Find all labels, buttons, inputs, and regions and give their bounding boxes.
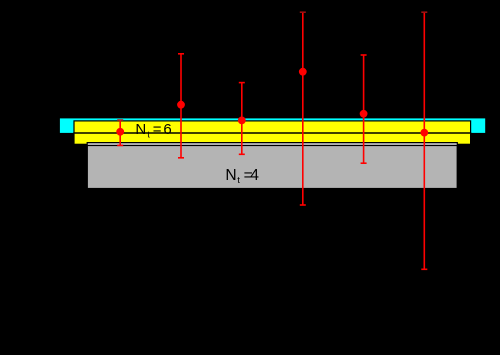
silver center bar Nt=4 — [87, 143, 457, 146]
svg-text:t: t — [237, 175, 240, 186]
svg-text:t: t — [147, 129, 150, 139]
svg-text:4: 4 — [250, 167, 259, 184]
data point 1 — [116, 128, 124, 136]
data point 5 — [360, 110, 368, 118]
svg-text:=: = — [153, 121, 162, 138]
gray band Nt=4 — [87, 145, 457, 188]
data point 6 error bar — [421, 12, 427, 269]
data point 3 error bar — [239, 83, 245, 155]
label Nt=6 — [135, 121, 171, 139]
data point 6 — [420, 129, 428, 137]
data point 1 error bar — [117, 120, 123, 145]
data point 3 — [238, 117, 246, 125]
data point 4 error bar — [300, 12, 306, 205]
center line Nt=6 — [73, 132, 471, 134]
data point 5 error bar — [361, 55, 367, 163]
data point 2 error bar — [178, 54, 184, 158]
cyan band — [60, 118, 485, 132]
svg-text:6: 6 — [163, 121, 171, 138]
svg-text:N: N — [135, 121, 146, 138]
svg-text:N: N — [225, 167, 236, 184]
label Nt=4 — [225, 167, 259, 186]
data point 2 — [177, 101, 185, 109]
data point 4 — [299, 68, 307, 76]
yellow band Nt=6 — [74, 121, 471, 144]
